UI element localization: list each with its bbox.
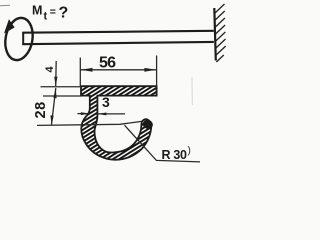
cross-section body: flange + web + hook (81, 86, 157, 160)
shaft left end cap (22, 32, 24, 45)
svg-text:R 30: R 30 (162, 148, 188, 162)
scan mark top-left (0, 4, 10, 7)
svg-text:?: ? (59, 5, 69, 22)
fixed wall line (214, 8, 216, 61)
shaft top edge (22, 31, 214, 33)
svg-text:): ) (188, 146, 191, 157)
torque arrow ellipse (2, 16, 36, 63)
svg-text:t: t (44, 11, 48, 23)
extension line flange bottom (43, 95, 81, 97)
torque arrowhead (4, 19, 15, 33)
svg-text:3: 3 (102, 94, 110, 110)
dimension 3 (77, 113, 125, 115)
wall hatching (215, 4, 226, 62)
svg-text:=: = (50, 6, 56, 18)
faint scan scratch (191, 77, 193, 105)
extension line flange top (41, 86, 83, 88)
svg-text:56: 56 (99, 55, 116, 72)
radius leader R30 (125, 125, 201, 162)
svg-text:28: 28 (33, 101, 49, 118)
shaft bottom edge (22, 42, 214, 44)
dimension 28 (52, 88, 56, 125)
svg-text:4: 4 (44, 66, 56, 73)
svg-text:M: M (32, 4, 42, 18)
label Mt = ? (32, 4, 68, 23)
dimension 4 (55, 61, 58, 86)
hook tip solid bulb (141, 118, 154, 130)
dimension 56 (80, 56, 156, 88)
extension line hook center (37, 121, 142, 125)
